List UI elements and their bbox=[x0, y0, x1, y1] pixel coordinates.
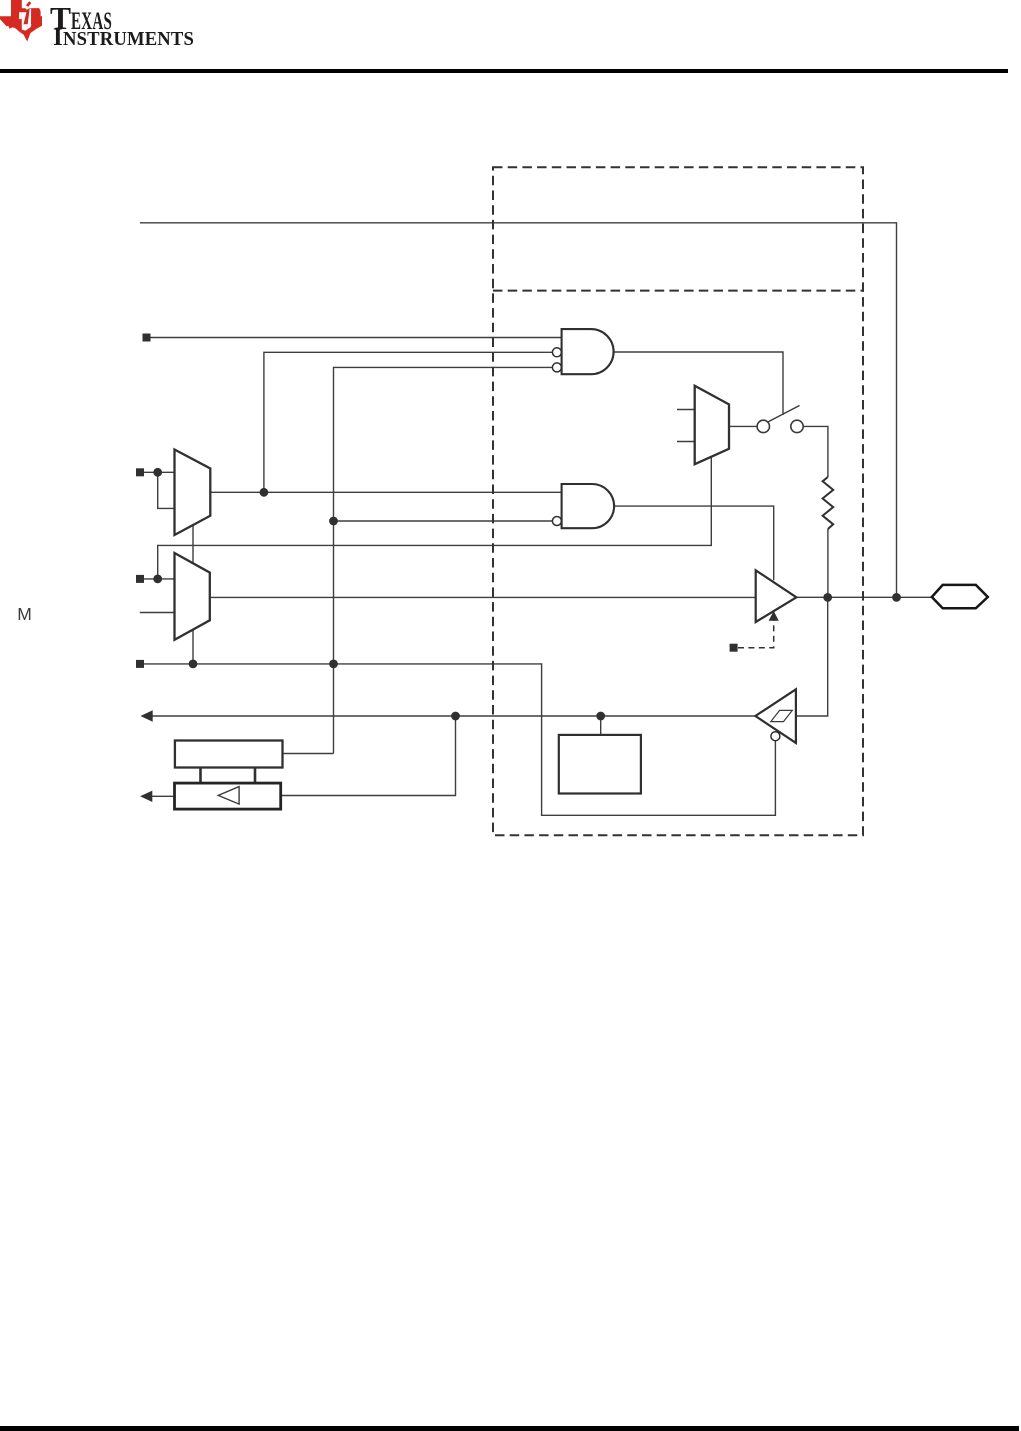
junction dot buffer riser bbox=[451, 712, 460, 721]
terminal square mux M2 bbox=[136, 575, 144, 583]
wire pad node to Schmitt input bbox=[796, 597, 828, 716]
TEXAS bbox=[50, 3, 142, 37]
junction dot mux M2 input bbox=[153, 575, 162, 584]
dashed driver enable from terminal bbox=[738, 621, 774, 648]
wire mux M3 input stub 2 bbox=[677, 441, 695, 443]
wire driver output to pad bbox=[796, 596, 931, 598]
wire mux M3 select to mux M2 input net bbox=[158, 457, 712, 579]
pad hexagon bbox=[932, 585, 988, 608]
wire latch output riser bbox=[283, 753, 334, 755]
bottom horizontal rule bbox=[0, 1426, 1019, 1431]
wire mux M3 input stub 1 bbox=[677, 409, 695, 411]
junction dot NAND U2 in2 bbox=[329, 517, 338, 526]
wire mux M1 input A bbox=[140, 471, 175, 473]
latch leg right bbox=[254, 768, 257, 784]
Schmitt hysteresis glyph bbox=[771, 710, 793, 721]
arrow PxIN out bbox=[141, 710, 153, 721]
wire top line to pad node bbox=[140, 223, 897, 598]
wire Schmitt output PxIN bbox=[152, 715, 755, 717]
wire NAND U1 output to switch lever bbox=[614, 352, 783, 415]
wire mux M2 input A bbox=[140, 578, 175, 580]
terminal square driver enable bbox=[730, 644, 738, 652]
junction dot resistor pad net bbox=[823, 593, 832, 602]
junction dot mux M1 output bbox=[260, 488, 269, 497]
junction dot mux M1 input bbox=[153, 468, 162, 477]
dashed module boundary box bbox=[493, 167, 863, 835]
mux M1 bbox=[175, 450, 211, 536]
wire module input M stub bbox=[140, 612, 175, 614]
wire resistor R1 to pad node bbox=[827, 529, 829, 597]
mux M3 bbox=[695, 386, 729, 464]
read buffer triangle bbox=[218, 787, 239, 805]
NAND gate U2 (2-input, bubble on 2) bbox=[552, 484, 614, 528]
resistor R1 bbox=[823, 477, 834, 529]
switch S1 contacts bbox=[757, 420, 803, 432]
switch S1 lever bbox=[768, 406, 800, 423]
D storage box bbox=[559, 735, 641, 794]
arrow buffer out bbox=[140, 791, 152, 802]
driver enable arrowhead bbox=[769, 611, 779, 621]
read buffer box bbox=[175, 783, 281, 809]
dashed inner divider bbox=[493, 290, 863, 292]
wire NAND U1 input 2 riser bbox=[264, 352, 553, 492]
label M bbox=[17, 604, 32, 625]
top horizontal rule bbox=[0, 69, 1008, 73]
wire control net to Schmitt enable bubble bbox=[140, 664, 775, 815]
Schmitt trigger input buffer U4 bbox=[755, 689, 796, 743]
wire NAND U2 output to driver enable bbox=[614, 506, 774, 580]
TI logo bug bbox=[0, 0, 46, 46]
terminal square NAND U1 in1 bbox=[143, 334, 151, 342]
wire mux M1 output to NAND U2 input 1 bbox=[210, 491, 561, 493]
wire mux M2 select bbox=[192, 630, 194, 664]
junction dot mux M2 select bbox=[189, 660, 198, 669]
wire mux M1 input B branch bbox=[158, 472, 175, 508]
terminal square control bbox=[136, 660, 144, 668]
output driver buffer U3 bbox=[756, 570, 797, 622]
latch leg left bbox=[199, 768, 202, 784]
junction dot control riser bbox=[329, 660, 338, 669]
wire mux M2 output to output driver bbox=[210, 596, 756, 598]
wire mux M1 select to mux M2 bbox=[192, 525, 194, 563]
wire buffer box input riser bbox=[281, 716, 456, 796]
INSTRUMENTS bbox=[53, 25, 204, 52]
wire NAND U2 input 2 bbox=[334, 520, 553, 522]
wire NAND U1 input 3 / control riser bbox=[334, 367, 553, 753]
junction dot top line pad net bbox=[892, 593, 901, 602]
wire switch to resistor R1 bbox=[803, 426, 828, 477]
EN latch box bbox=[175, 741, 283, 768]
wire NAND U1 input 1 bbox=[147, 337, 562, 339]
wire buffer output bbox=[152, 795, 175, 797]
terminal square mux M1 bbox=[136, 468, 144, 476]
wire latch tap riser bbox=[600, 716, 602, 735]
mux M2 bbox=[175, 553, 210, 640]
NAND gate U1 (3-input, bubbles on 2,3) bbox=[552, 329, 613, 374]
junction dot latch tap bbox=[596, 712, 605, 721]
wire mux M3 output to switch bbox=[729, 425, 757, 427]
